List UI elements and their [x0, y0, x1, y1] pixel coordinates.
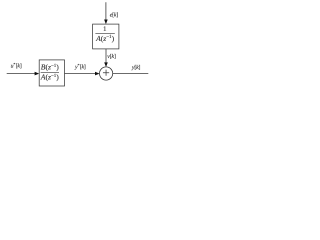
wire: v from block 1/A down to summing junction — [105, 49, 107, 63]
svg-text:u*[k]: u*[k] — [11, 61, 22, 69]
svg-text:A(z−1): A(z−1) — [95, 34, 114, 43]
arrowhead into block 1/A — [104, 20, 108, 25]
wire: input u* horizontal — [7, 73, 36, 75]
svg-text:1: 1 — [103, 25, 107, 33]
svg-text:y*[k]: y*[k] — [74, 62, 86, 70]
wire: y* from block to summing junction — [65, 73, 96, 75]
arrowhead into summing junction (left) — [95, 72, 100, 76]
background — [0, 0, 150, 95]
block 1/A(z^-1) — [93, 24, 119, 49]
svg-text:v[k]: v[k] — [107, 53, 116, 60]
summing junction circle — [100, 67, 113, 80]
arrowhead into block B/A — [35, 72, 40, 76]
fraction bar of block B/A — [41, 72, 59, 74]
fraction bar of block 1/A — [95, 33, 114, 35]
plus sign in summing junction — [103, 70, 109, 76]
svg-text:y[k]: y[k] — [131, 64, 141, 71]
svg-text:B(z−1): B(z−1) — [41, 63, 59, 72]
wire: output y — [113, 73, 149, 75]
arrowhead into summing junction (top) — [104, 62, 108, 67]
wire: noise input e vertical at top — [105, 2, 107, 20]
block B(z^-1)/A(z^-1) — [39, 60, 64, 86]
svg-text:e[k]: e[k] — [110, 11, 119, 18]
svg-text:A(z−1): A(z−1) — [40, 73, 59, 82]
